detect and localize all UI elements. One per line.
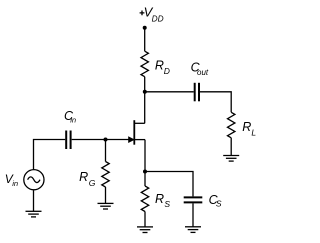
svg-text:DD: DD bbox=[152, 13, 164, 23]
svg-text:out: out bbox=[197, 68, 209, 77]
svg-text:G: G bbox=[89, 178, 96, 188]
svg-text:in: in bbox=[70, 116, 76, 125]
svg-text:S: S bbox=[164, 199, 170, 209]
svg-text:R: R bbox=[155, 192, 164, 206]
svg-text:L: L bbox=[251, 128, 256, 138]
svg-text:D: D bbox=[164, 66, 170, 76]
svg-text:S: S bbox=[216, 198, 222, 208]
svg-text:in: in bbox=[12, 179, 18, 188]
svg-text:R: R bbox=[242, 120, 251, 134]
svg-text:R: R bbox=[155, 59, 164, 73]
svg-text:R: R bbox=[79, 170, 88, 184]
